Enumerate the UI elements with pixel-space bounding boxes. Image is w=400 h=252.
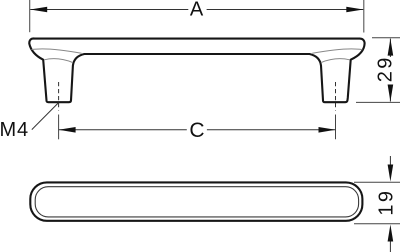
flare highlight lower right [321,59,350,63]
dim C line right segment [207,129,336,131]
dim 29 arrow down [388,85,394,102]
dim C line left segment [59,129,187,131]
dim 19 arrow top (outside, pointing down) [389,156,391,166]
dim C arrow left [59,127,76,133]
handle outline (side elevation) [29,38,364,102]
svg-text:29: 29 [375,55,397,82]
dim 29 line top segment [389,39,391,57]
dim A extension line left [29,0,31,32]
svg-text:M4: M4 [0,119,29,141]
bottom view inner edge [35,187,358,217]
dim 19 extension line bottom [354,223,400,225]
leader M4 [32,103,59,130]
dim 29 line bottom segment [389,85,391,102]
svg-text:19: 19 [376,189,398,216]
dim A extension line right [363,0,365,33]
dim C arrow right [319,127,336,133]
dim 19 arrow bottom (outside, pointing up) [389,241,391,252]
dim A arrow right [346,7,363,13]
dim A line left segment [30,9,188,11]
dim 29 extension line top [372,37,400,39]
dim A arrow left [30,7,47,13]
svg-text:C: C [189,119,204,142]
dim 19 extension line top [354,181,400,183]
dim A line right segment [207,9,364,11]
centerline right post (dashed) [335,82,337,111]
dim C extension line left [58,115,60,140]
bottom view outer profile [30,182,362,220]
dim 29 arrow up [388,39,394,56]
dim 29 extension line bottom [356,101,400,103]
flare highlight upper right [312,49,362,53]
centerline left post (dashed) [58,82,60,111]
svg-text:A: A [190,0,204,21]
dim C extension line right [335,115,337,140]
flare highlight upper left [32,49,82,53]
flare highlight lower left [44,59,73,63]
